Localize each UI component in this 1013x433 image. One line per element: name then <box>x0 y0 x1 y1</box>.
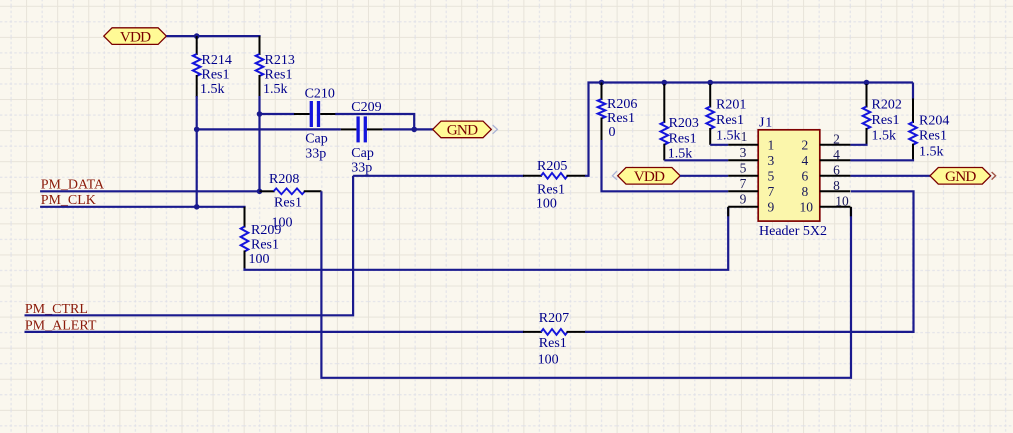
svg-text:R203: R203 <box>669 116 699 131</box>
svg-text:Res1: Res1 <box>265 68 293 83</box>
junction R213/C210 wire <box>257 111 263 117</box>
junction R213 at PM_DATA <box>257 189 263 195</box>
svg-text:R207: R207 <box>539 311 569 326</box>
pin 10 corner lead <box>850 207 852 217</box>
pin 1 of J1 <box>728 137 774 152</box>
chevron after GND (pin 6) <box>992 172 996 180</box>
svg-text:4: 4 <box>802 153 809 168</box>
pin 10 of J1 <box>800 199 851 214</box>
svg-text:1: 1 <box>768 137 775 152</box>
resistor R203 <box>661 84 699 162</box>
svg-text:R205: R205 <box>537 159 567 174</box>
power port GND (pin 6) <box>930 168 991 186</box>
pin 9 of J1 <box>728 199 774 214</box>
svg-text:1.5k: 1.5k <box>200 82 225 97</box>
wire PM_ALERT to pin 8 <box>585 191 914 332</box>
net label PM_DATA <box>41 177 105 192</box>
svg-text:1.5k: 1.5k <box>263 82 288 97</box>
resistor R205 <box>523 159 586 212</box>
svg-text:2: 2 <box>802 137 809 152</box>
junction rail at R206 <box>599 80 605 86</box>
wire VDD rail top <box>166 35 260 37</box>
svg-text:2: 2 <box>833 131 840 146</box>
svg-text:R204: R204 <box>919 114 949 129</box>
resistor R202 <box>863 84 902 145</box>
svg-text:8: 8 <box>802 184 809 199</box>
wire R214 bottom to PM_CLK <box>196 96 198 207</box>
pin number 1 label <box>741 129 748 144</box>
junction at R214 top <box>194 33 200 39</box>
junction rail at R201 <box>707 80 713 86</box>
pin 2 of J1 <box>802 137 851 152</box>
resistor R201 <box>706 84 746 145</box>
power port VDD (top left) <box>104 28 167 46</box>
connector J1 body <box>758 116 827 240</box>
svg-text:5: 5 <box>740 161 747 176</box>
svg-text:R214: R214 <box>202 53 232 68</box>
wire PM_CLK <box>40 206 246 208</box>
wire R205 to rail <box>585 83 913 176</box>
pin number 5 label <box>740 161 747 176</box>
svg-text:R208: R208 <box>269 172 299 187</box>
capacitor C210 <box>294 87 336 162</box>
wire C209 left <box>197 128 341 130</box>
svg-text:R202: R202 <box>872 98 902 113</box>
svg-text:33p: 33p <box>305 147 326 162</box>
svg-text:1.5k: 1.5k <box>919 144 944 159</box>
svg-text:Res1: Res1 <box>251 238 279 253</box>
resistor R214 <box>193 36 232 97</box>
pin 9 corner lead <box>727 207 729 217</box>
svg-text:9: 9 <box>740 192 747 207</box>
svg-text:Cap: Cap <box>305 132 328 147</box>
svg-text:Res1: Res1 <box>537 182 565 197</box>
svg-text:PM_DATA: PM_DATA <box>41 177 105 192</box>
wire pin 6 to GND <box>850 175 931 177</box>
resistor R206 <box>598 83 638 141</box>
pin 7 of J1 <box>728 184 774 199</box>
svg-text:6: 6 <box>802 168 809 183</box>
wire pin 2 to R202 <box>850 144 867 146</box>
wire R201 to pin 1 <box>710 144 728 146</box>
svg-text:10: 10 <box>800 199 814 214</box>
wire R205 left <box>353 175 524 177</box>
wire PM_ALERT left <box>25 331 525 333</box>
wire R213 bottom to PM_DATA <box>258 96 260 191</box>
pin number 4 label <box>833 147 840 162</box>
junction rail at R202 <box>864 80 870 86</box>
net label PM_ALERT <box>25 319 97 334</box>
pin number 8 label <box>833 178 840 193</box>
svg-text:R206: R206 <box>607 97 637 112</box>
svg-text:GND: GND <box>447 122 478 139</box>
wire rail to R203 <box>663 83 665 87</box>
svg-text:100: 100 <box>536 196 557 211</box>
svg-text:R201: R201 <box>716 98 746 113</box>
pin 4 of J1 <box>802 153 851 168</box>
power port VDD (pin 5) <box>618 168 681 186</box>
svg-text:VDD: VDD <box>120 28 151 45</box>
wire C210 right + drop to GND wire <box>335 114 414 129</box>
svg-text:J1: J1 <box>759 116 773 131</box>
svg-text:R209: R209 <box>251 223 281 238</box>
power port GND (top) <box>433 121 492 139</box>
svg-text:4: 4 <box>833 147 840 162</box>
svg-text:1: 1 <box>741 129 748 144</box>
wire rail to R204 <box>912 83 914 100</box>
svg-text:Res1: Res1 <box>274 196 302 211</box>
svg-text:Header 5X2: Header 5X2 <box>759 224 827 239</box>
wire pin 4 to R204 <box>850 159 914 161</box>
junction rail at R203 <box>662 80 668 86</box>
svg-text:Res1: Res1 <box>669 132 697 147</box>
net label PM_CTRL <box>25 302 88 317</box>
wire R209 to header pin 9 <box>245 207 729 269</box>
chevron after GND (top) <box>493 125 498 134</box>
wire C209 right to GND port <box>383 128 434 130</box>
svg-text:8: 8 <box>833 178 840 193</box>
pin 5 of J1 <box>728 168 774 183</box>
svg-text:Res1: Res1 <box>539 336 567 351</box>
resistor R204 <box>909 99 949 161</box>
svg-text:5: 5 <box>768 168 775 183</box>
pin number 6 label <box>833 162 840 177</box>
svg-text:3: 3 <box>768 153 775 168</box>
svg-text:33p: 33p <box>351 161 372 176</box>
capacitor C209 <box>341 100 383 176</box>
svg-text:R213: R213 <box>265 53 295 68</box>
wire PM_CTRL <box>25 176 354 315</box>
pin number 3 label <box>740 145 747 160</box>
svg-text:Res1: Res1 <box>872 113 900 128</box>
svg-text:Res1: Res1 <box>716 113 744 128</box>
svg-text:7: 7 <box>768 184 775 199</box>
svg-text:6: 6 <box>833 162 840 177</box>
svg-text:C209: C209 <box>351 100 381 115</box>
svg-text:100: 100 <box>249 252 270 267</box>
pin number 2 label <box>833 131 840 146</box>
wire PM_DATA <box>40 190 261 192</box>
pin number 10 label <box>835 193 849 208</box>
svg-text:9: 9 <box>768 199 775 214</box>
wire VDD to pin 5 <box>680 175 728 177</box>
svg-text:7: 7 <box>740 176 747 191</box>
svg-text:0: 0 <box>609 125 616 140</box>
pin number 9 label <box>740 192 747 207</box>
chevron before VDD (pin 5) <box>612 171 617 180</box>
svg-text:C210: C210 <box>305 87 335 102</box>
svg-text:1.5k: 1.5k <box>872 129 897 144</box>
wire R203 to pin 3 <box>664 159 728 161</box>
junction R214/C209 wire <box>194 127 200 133</box>
svg-text:Res1: Res1 <box>607 111 635 126</box>
junction R214 at PM_CLK <box>194 204 200 210</box>
resistor R207 <box>523 311 586 367</box>
resistor R213 <box>256 36 295 97</box>
net label PM_CLK <box>41 193 96 208</box>
pin 3 of J1 <box>728 153 774 168</box>
pin 6 of J1 <box>802 168 851 183</box>
svg-text:100: 100 <box>538 352 559 367</box>
wire R206 to pin 7 <box>602 140 729 191</box>
svg-text:GND: GND <box>945 168 976 185</box>
svg-text:Res1: Res1 <box>919 129 947 144</box>
svg-text:1.5k: 1.5k <box>716 129 741 144</box>
svg-text:10: 10 <box>835 193 849 208</box>
svg-text:Cap: Cap <box>351 146 374 161</box>
svg-text:Res1: Res1 <box>202 68 230 83</box>
svg-text:3: 3 <box>740 145 747 160</box>
resistor R208 <box>260 172 322 230</box>
wire R208 to bottom run <box>321 191 851 377</box>
resistor R209 <box>241 207 282 269</box>
pin number 7 label <box>740 176 747 191</box>
pin 8 of J1 <box>802 184 851 199</box>
junction C210 branch at GND wire <box>411 127 417 133</box>
wire C210 left <box>259 113 295 115</box>
svg-text:VDD: VDD <box>634 168 665 185</box>
